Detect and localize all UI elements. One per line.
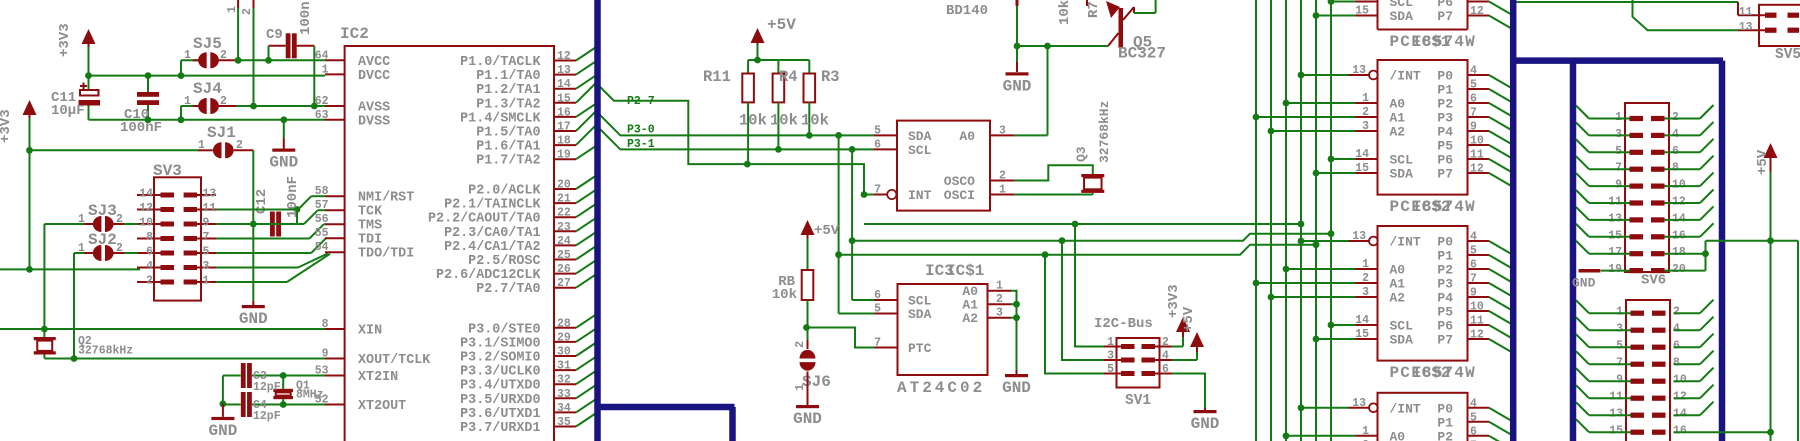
svg-text:11: 11	[1470, 315, 1484, 328]
svg-text:14: 14	[1355, 148, 1369, 161]
svg-text:5: 5	[1470, 245, 1477, 258]
svg-text:P2.5/ROSC: P2.5/ROSC	[468, 254, 540, 269]
svg-text:TDO/TDI: TDO/TDI	[358, 247, 414, 262]
svg-text:P3.3/UCLK0: P3.3/UCLK0	[460, 365, 540, 380]
svg-text:30: 30	[557, 346, 571, 359]
svg-text:12: 12	[1470, 163, 1484, 176]
svg-text:P1: P1	[1437, 415, 1453, 430]
svg-text:R7: R7	[1086, 1, 1102, 18]
svg-text:5: 5	[203, 246, 210, 259]
svg-text:2: 2	[999, 170, 1006, 183]
svg-text:P0: P0	[1437, 69, 1453, 84]
svg-text:5: 5	[1470, 411, 1477, 424]
svg-text:P2.6/ADC12CLK: P2.6/ADC12CLK	[436, 268, 541, 283]
svg-text:5: 5	[874, 124, 881, 137]
svg-text:12: 12	[1470, 5, 1484, 18]
svg-text:11: 11	[1739, 6, 1753, 19]
svg-text:17: 17	[557, 121, 571, 134]
svg-text:100nF: 100nF	[120, 120, 162, 136]
svg-text:P2.2/CAOUT/TA0: P2.2/CAOUT/TA0	[428, 212, 541, 227]
svg-text:SV5: SV5	[1775, 47, 1800, 63]
svg-text:6: 6	[1470, 93, 1477, 106]
svg-text:/INT: /INT	[1390, 401, 1421, 416]
svg-text:22: 22	[557, 207, 571, 220]
svg-text:14: 14	[1355, 314, 1369, 327]
svg-text:AVCC: AVCC	[358, 55, 390, 70]
svg-text:1: 1	[1362, 92, 1369, 105]
svg-text:53: 53	[315, 365, 329, 378]
svg-text:SDA: SDA	[908, 129, 932, 144]
svg-text:7: 7	[1470, 273, 1477, 286]
svg-text:4: 4	[1470, 231, 1477, 244]
svg-text:9: 9	[322, 348, 329, 361]
svg-text:33: 33	[557, 388, 571, 401]
svg-text:1: 1	[1107, 336, 1114, 349]
svg-text:12pF: 12pF	[253, 381, 281, 394]
svg-text:GND: GND	[1003, 77, 1032, 95]
svg-text:GND: GND	[208, 422, 237, 440]
svg-text:15: 15	[1355, 162, 1369, 175]
svg-text:23: 23	[557, 221, 571, 234]
svg-text:13: 13	[1352, 397, 1366, 410]
svg-text:+5V: +5V	[1181, 306, 1197, 332]
svg-text:Q3: Q3	[1074, 146, 1089, 162]
svg-text:10: 10	[139, 217, 153, 230]
svg-text:IC$1: IC$1	[946, 262, 984, 280]
svg-text:P2.1/TAINCLK: P2.1/TAINCLK	[444, 198, 541, 213]
svg-text:A0: A0	[1390, 429, 1406, 441]
svg-text:55: 55	[315, 227, 329, 240]
svg-text:1: 1	[322, 63, 329, 76]
svg-text:13: 13	[557, 64, 571, 77]
svg-text:14: 14	[557, 78, 571, 91]
svg-text:SDA: SDA	[908, 307, 932, 322]
svg-text:A1: A1	[1390, 111, 1406, 126]
svg-text:IC2: IC2	[340, 25, 369, 43]
svg-text:13: 13	[1352, 230, 1366, 243]
svg-text:P3.6/UTXD1: P3.6/UTXD1	[460, 407, 540, 422]
svg-text:12: 12	[139, 202, 153, 215]
svg-text:1: 1	[999, 184, 1006, 197]
svg-text:IC$2: IC$2	[1412, 198, 1450, 216]
svg-text:10k: 10k	[1057, 0, 1073, 25]
svg-text:13: 13	[1739, 21, 1753, 34]
svg-text:13: 13	[1352, 64, 1366, 77]
svg-text:P1.7/TA2: P1.7/TA2	[476, 154, 540, 169]
svg-text:6: 6	[1470, 425, 1477, 438]
svg-text:10: 10	[1470, 135, 1484, 148]
svg-text:11: 11	[1470, 149, 1484, 162]
svg-text:P1.5/TA0: P1.5/TA0	[476, 126, 540, 141]
svg-text:3: 3	[999, 124, 1006, 137]
svg-text:P1.3/TA2: P1.3/TA2	[476, 97, 540, 112]
svg-text:P3: P3	[1437, 277, 1453, 292]
svg-text:2: 2	[1362, 106, 1369, 119]
svg-text:9: 9	[1470, 121, 1477, 134]
svg-text:P1.1/TA0: P1.1/TA0	[476, 69, 540, 84]
svg-text:6: 6	[1162, 363, 1169, 376]
svg-text:R3: R3	[821, 68, 840, 86]
svg-text:SDA: SDA	[1390, 333, 1414, 348]
svg-text:1: 1	[996, 280, 1003, 293]
svg-text:XOUT/TCLK: XOUT/TCLK	[358, 353, 431, 368]
svg-text:/INT: /INT	[1390, 69, 1421, 84]
svg-text:SV1: SV1	[1125, 393, 1151, 409]
svg-text:100n: 100n	[298, 1, 314, 35]
svg-text:P3-1: P3-1	[627, 138, 655, 151]
svg-text:15: 15	[1355, 328, 1369, 341]
svg-text:4: 4	[1470, 65, 1477, 78]
svg-text:34: 34	[557, 402, 571, 415]
svg-text:15: 15	[1355, 5, 1369, 18]
svg-text:3: 3	[203, 260, 210, 273]
svg-text:9: 9	[203, 217, 210, 230]
svg-text:4: 4	[146, 260, 153, 273]
svg-text:GND: GND	[269, 154, 298, 172]
svg-text:P4: P4	[1437, 125, 1453, 140]
svg-text:XIN: XIN	[358, 324, 382, 339]
svg-text:P3.7/URXD1: P3.7/URXD1	[460, 421, 540, 436]
svg-text:1: 1	[203, 275, 210, 288]
svg-text:A0: A0	[959, 129, 975, 144]
svg-text:P6: P6	[1437, 319, 1453, 334]
svg-text:2: 2	[146, 275, 153, 288]
svg-text:AT24C02: AT24C02	[897, 379, 985, 397]
svg-text:2: 2	[1362, 272, 1369, 285]
svg-text:8: 8	[322, 318, 329, 331]
svg-text:4: 4	[1470, 397, 1477, 410]
svg-text:100nF: 100nF	[285, 176, 301, 218]
svg-text:29: 29	[557, 331, 571, 344]
svg-text:OSCI: OSCI	[944, 188, 975, 203]
svg-text:62: 62	[315, 95, 329, 108]
svg-text:10: 10	[1470, 301, 1484, 314]
svg-text:IC$2: IC$2	[1412, 364, 1450, 382]
svg-text:10k: 10k	[770, 112, 798, 130]
svg-text:18: 18	[557, 135, 571, 148]
svg-text:10k: 10k	[801, 112, 829, 130]
svg-text:P1.6/TA1: P1.6/TA1	[476, 140, 540, 155]
svg-text:P4: P4	[1437, 291, 1453, 306]
svg-text:P3.1/SIMO0: P3.1/SIMO0	[460, 336, 540, 351]
svg-text:9: 9	[1470, 287, 1477, 300]
svg-text:/INT: /INT	[1390, 235, 1421, 250]
svg-text:2: 2	[794, 341, 807, 348]
svg-text:P2.4/CA1/TA2: P2.4/CA1/TA2	[444, 240, 540, 255]
svg-text:P7: P7	[1437, 9, 1453, 24]
svg-text:XT2OUT: XT2OUT	[358, 399, 406, 414]
svg-text:32768kHz: 32768kHz	[78, 345, 133, 358]
svg-text:C9: C9	[266, 27, 283, 43]
svg-text:5: 5	[874, 303, 881, 316]
svg-text:TDI: TDI	[358, 233, 382, 248]
svg-text:A0: A0	[1390, 97, 1406, 112]
svg-text:32: 32	[557, 374, 571, 387]
svg-text:11: 11	[203, 202, 217, 215]
svg-text:7: 7	[203, 231, 210, 244]
svg-text:3: 3	[996, 307, 1003, 320]
svg-text:56: 56	[315, 213, 329, 226]
svg-text:GND: GND	[1572, 276, 1596, 291]
svg-text:P1: P1	[1437, 249, 1453, 264]
svg-text:7: 7	[874, 184, 881, 197]
svg-text:3: 3	[1362, 286, 1369, 299]
svg-text:28: 28	[557, 317, 571, 330]
svg-text:GND: GND	[1002, 379, 1031, 397]
svg-text:5: 5	[1107, 363, 1114, 376]
svg-text:A2: A2	[962, 311, 978, 326]
svg-text:+3V3: +3V3	[0, 109, 14, 143]
svg-text:DVCC: DVCC	[358, 69, 390, 84]
svg-text:R4: R4	[779, 68, 798, 86]
svg-text:+5V: +5V	[1755, 149, 1771, 175]
svg-text:P3.4/UTXD0: P3.4/UTXD0	[460, 379, 540, 394]
svg-text:A0: A0	[1390, 263, 1406, 278]
svg-text:32768kHz: 32768kHz	[1097, 101, 1112, 163]
svg-text:SJ5: SJ5	[193, 35, 222, 53]
svg-text:P2.3/CA0/TA1: P2.3/CA0/TA1	[444, 226, 540, 241]
svg-text:A2: A2	[1390, 125, 1406, 140]
svg-text:A1: A1	[1390, 277, 1406, 292]
svg-text:14: 14	[139, 188, 153, 201]
svg-text:P1.4/SMCLK: P1.4/SMCLK	[460, 111, 541, 126]
svg-text:63: 63	[315, 109, 329, 122]
svg-text:20: 20	[557, 179, 571, 192]
svg-text:SJ1: SJ1	[207, 124, 236, 142]
svg-text:35: 35	[557, 416, 571, 429]
svg-text:57: 57	[315, 199, 329, 212]
svg-text:NMI/RST: NMI/RST	[358, 191, 414, 206]
svg-text:DVSS: DVSS	[358, 114, 390, 129]
svg-text:24: 24	[557, 235, 571, 248]
svg-text:31: 31	[557, 360, 571, 373]
svg-text:P2.0/ACLK: P2.0/ACLK	[468, 184, 541, 199]
svg-text:PTC: PTC	[908, 341, 932, 356]
svg-text:SCL: SCL	[1390, 153, 1414, 168]
svg-text:12: 12	[557, 50, 571, 63]
svg-text:6: 6	[874, 138, 881, 151]
svg-text:SCL: SCL	[1390, 319, 1414, 334]
svg-text:R11: R11	[703, 68, 731, 86]
svg-text:SJ2: SJ2	[88, 231, 117, 249]
svg-text:26: 26	[557, 263, 571, 276]
svg-text:P2-7: P2-7	[627, 95, 655, 108]
svg-text:AVSS: AVSS	[358, 101, 390, 116]
svg-text:2: 2	[241, 8, 254, 15]
svg-text:IC$1: IC$1	[1412, 33, 1450, 51]
svg-text:P2: P2	[1437, 429, 1453, 441]
svg-text:GND: GND	[1191, 415, 1220, 433]
svg-text:P3: P3	[1437, 111, 1453, 126]
svg-text:7: 7	[874, 337, 881, 350]
svg-text:P3.0/STE0: P3.0/STE0	[468, 322, 540, 337]
svg-text:SJ4: SJ4	[193, 80, 222, 98]
svg-text:2: 2	[1162, 336, 1169, 349]
svg-text:SV6: SV6	[1641, 273, 1666, 289]
svg-text:+5V: +5V	[767, 16, 796, 34]
svg-text:SJ3: SJ3	[88, 202, 117, 220]
svg-text:P1.0/TACLK: P1.0/TACLK	[460, 55, 541, 70]
svg-text:6: 6	[1470, 259, 1477, 272]
svg-text:+3V3: +3V3	[57, 23, 73, 57]
svg-text:1: 1	[1362, 425, 1369, 438]
svg-text:GND: GND	[239, 310, 268, 328]
svg-text:54: 54	[315, 241, 329, 254]
svg-text:P2.7/TA0: P2.7/TA0	[476, 282, 540, 297]
svg-text:SDA: SDA	[1390, 9, 1414, 24]
svg-text:+3V3: +3V3	[1166, 284, 1182, 318]
svg-text:OSCO: OSCO	[944, 174, 975, 189]
svg-text:P2: P2	[1437, 263, 1453, 278]
svg-text:I2C-Bus: I2C-Bus	[1094, 316, 1153, 332]
svg-text:2: 2	[996, 293, 1003, 306]
svg-text:8: 8	[146, 231, 153, 244]
svg-text:5: 5	[1470, 79, 1477, 92]
svg-text:6: 6	[874, 289, 881, 302]
svg-text:6: 6	[146, 246, 153, 259]
svg-text:BC327: BC327	[1118, 45, 1166, 63]
svg-text:A2: A2	[1390, 291, 1406, 306]
svg-text:58: 58	[315, 185, 329, 198]
svg-text:P5: P5	[1437, 305, 1453, 320]
svg-text:P1.2/TA1: P1.2/TA1	[476, 83, 540, 98]
svg-text:10µF: 10µF	[51, 103, 85, 119]
svg-text:1: 1	[1362, 258, 1369, 271]
svg-text:12: 12	[1470, 329, 1484, 342]
svg-text:P2: P2	[1437, 97, 1453, 112]
svg-text:P0: P0	[1437, 235, 1453, 250]
svg-text:P6: P6	[1437, 153, 1453, 168]
svg-text:3: 3	[1362, 120, 1369, 133]
svg-text:SDA: SDA	[1390, 167, 1414, 182]
svg-text:+5V: +5V	[814, 223, 840, 239]
svg-text:P0: P0	[1437, 401, 1453, 416]
svg-text:P1: P1	[1437, 83, 1453, 98]
svg-text:4: 4	[1162, 350, 1169, 363]
svg-text:19: 19	[557, 149, 571, 162]
svg-text:10k: 10k	[772, 287, 797, 303]
svg-text:TMS: TMS	[358, 219, 382, 234]
svg-text:64: 64	[315, 49, 329, 62]
svg-text:GND: GND	[793, 410, 822, 428]
svg-text:27: 27	[557, 277, 571, 290]
svg-text:3: 3	[1107, 350, 1114, 363]
svg-text:P3.5/URXD0: P3.5/URXD0	[460, 393, 540, 408]
svg-text:P3.2/SOMI0: P3.2/SOMI0	[460, 351, 540, 366]
svg-text:15: 15	[557, 92, 571, 105]
svg-text:P7: P7	[1437, 333, 1453, 348]
svg-text:BD140: BD140	[946, 3, 988, 19]
svg-text:INT: INT	[908, 188, 932, 203]
svg-text:P7: P7	[1437, 167, 1453, 182]
svg-text:P5: P5	[1437, 139, 1453, 154]
svg-text:1: 1	[226, 6, 239, 13]
svg-text:7: 7	[1470, 107, 1477, 120]
svg-text:SCL: SCL	[908, 143, 932, 158]
svg-text:25: 25	[557, 249, 571, 262]
svg-text:21: 21	[557, 193, 571, 206]
svg-text:10k: 10k	[739, 112, 767, 130]
svg-text:XT2IN: XT2IN	[358, 370, 398, 385]
svg-text:SJ6: SJ6	[802, 373, 831, 391]
svg-text:12pF: 12pF	[253, 410, 281, 423]
svg-text:52: 52	[315, 394, 329, 407]
svg-text:TCK: TCK	[358, 205, 383, 220]
svg-text:P3-0: P3-0	[627, 124, 655, 137]
svg-text:16: 16	[557, 106, 571, 119]
svg-text:13: 13	[203, 188, 217, 201]
